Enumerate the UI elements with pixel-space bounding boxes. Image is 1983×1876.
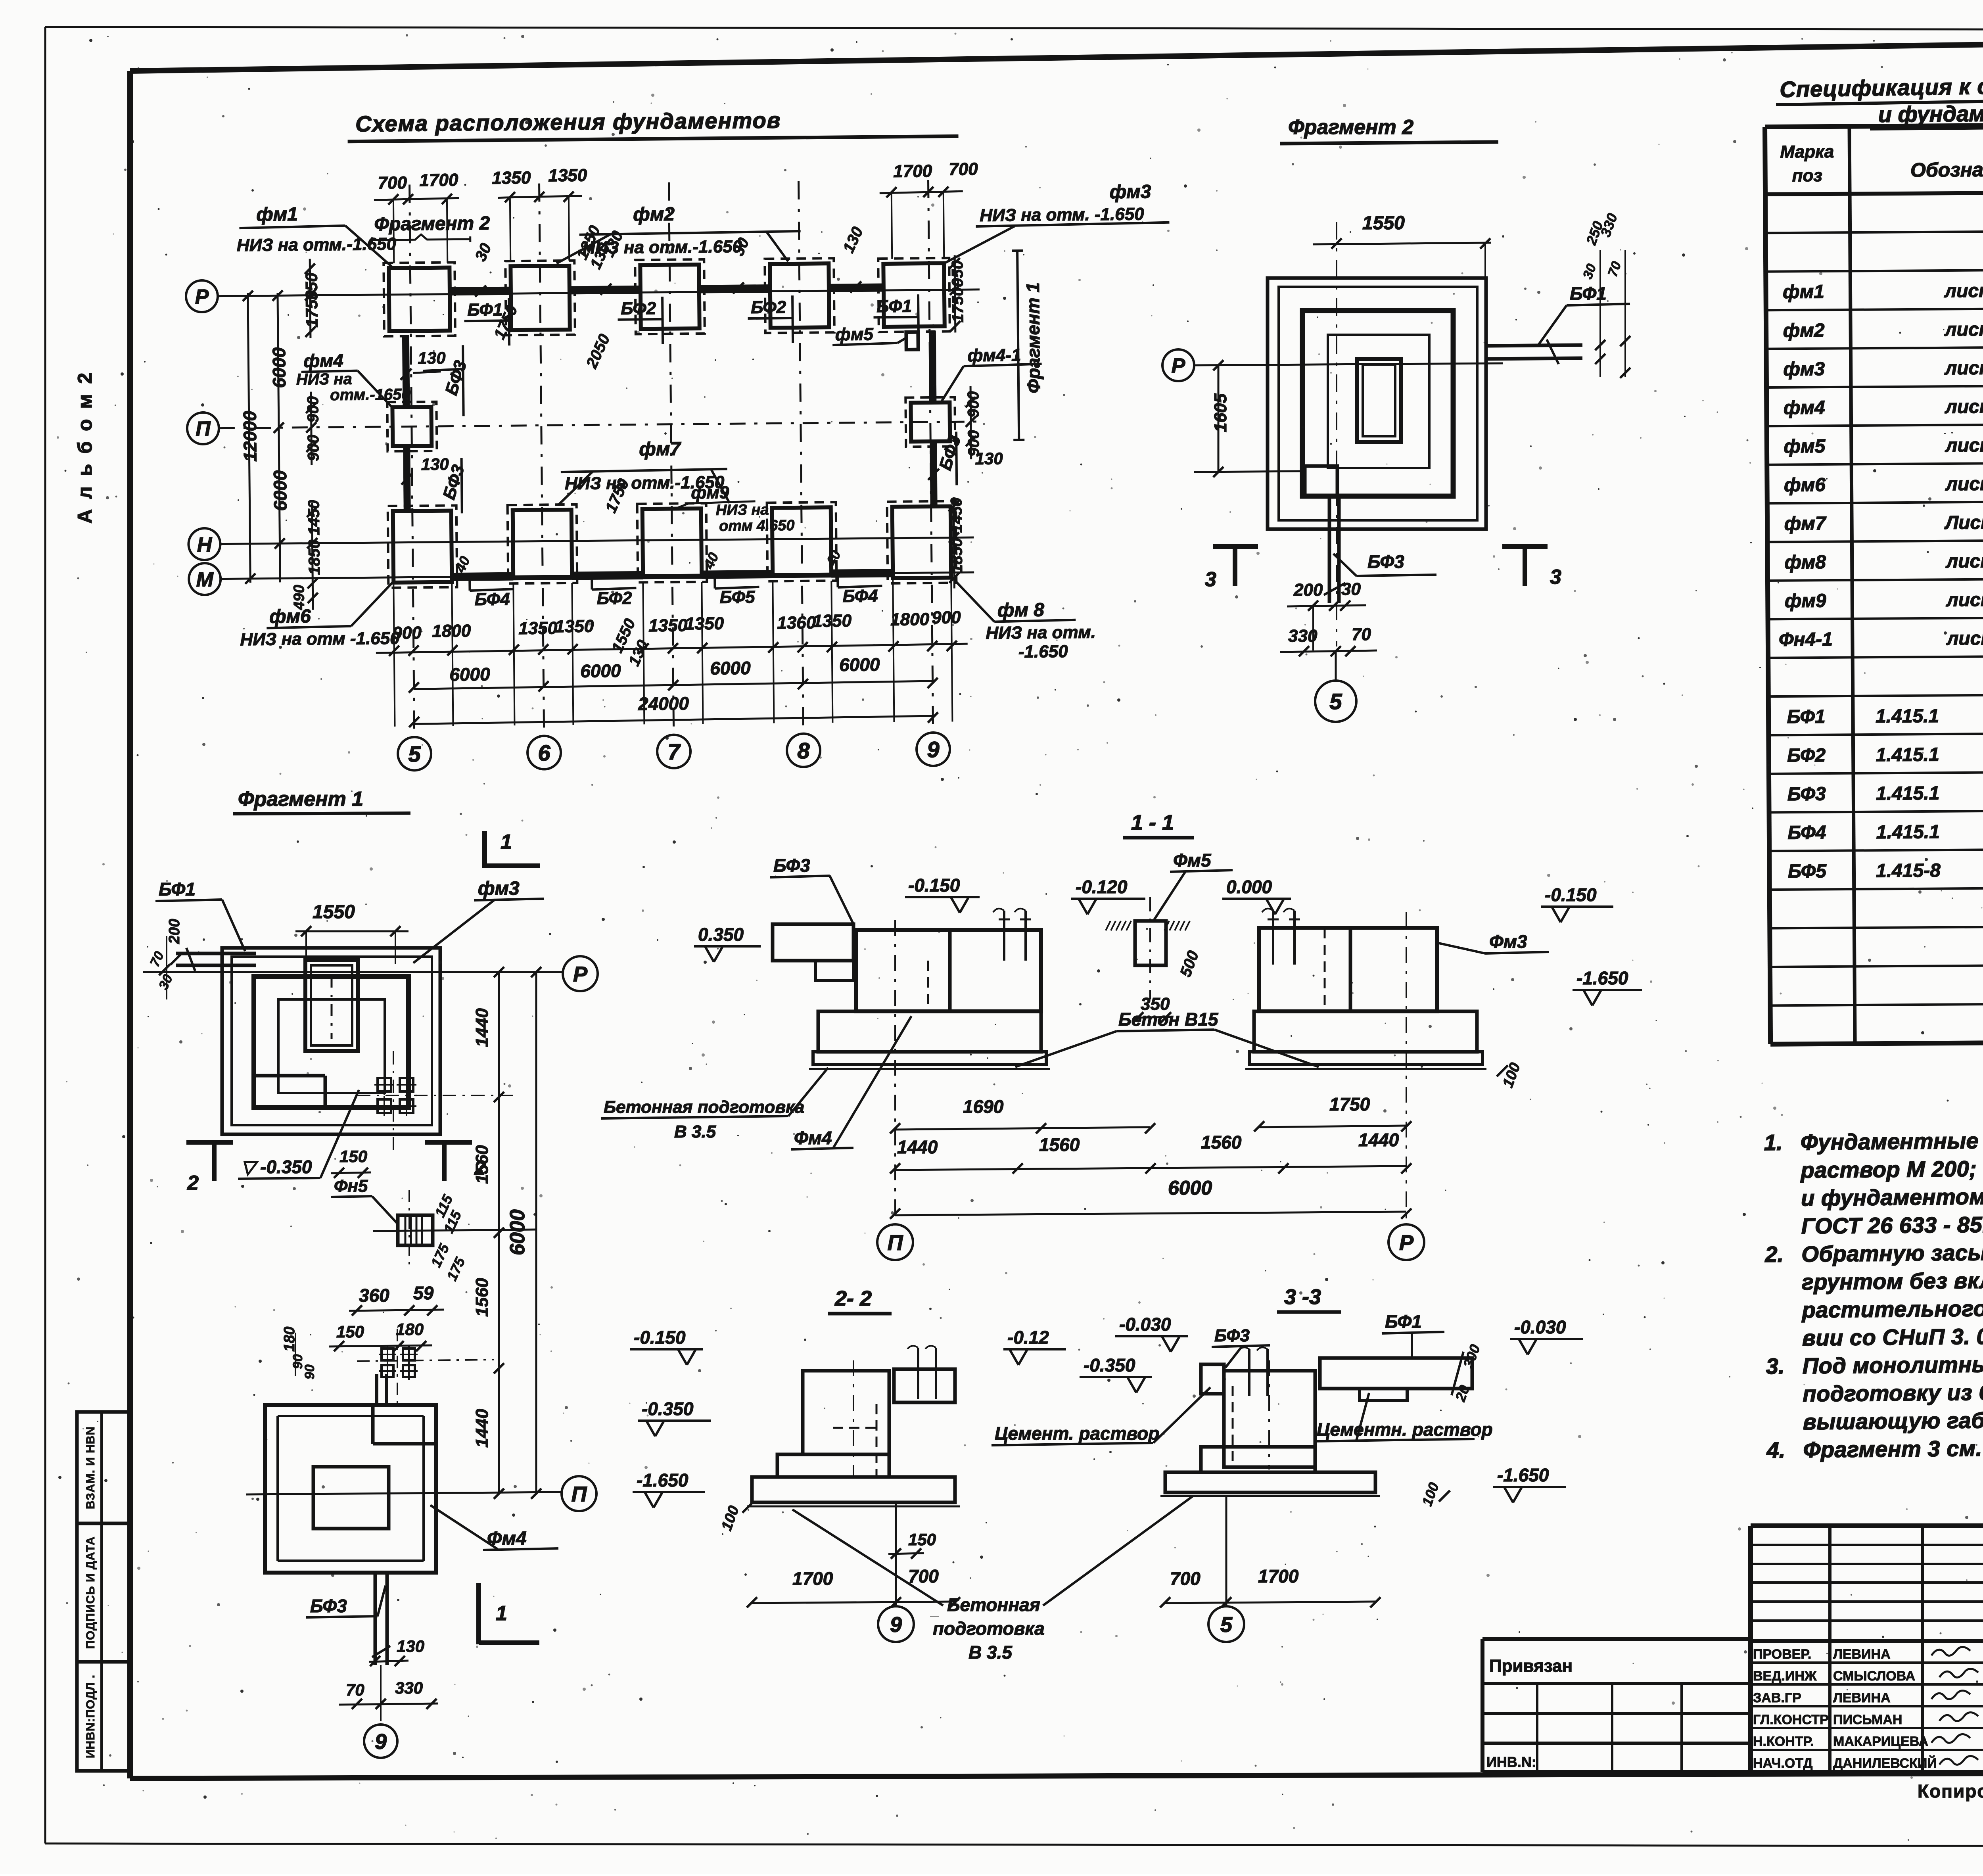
svg-text:700: 700: [1170, 1568, 1201, 1589]
svg-text:1750: 1750: [949, 287, 967, 322]
svg-text:ГЛ.КОНСТР: ГЛ.КОНСТР: [1753, 1712, 1829, 1727]
svg-text:ИНВ.N:: ИНВ.N:: [1486, 1754, 1536, 1770]
svg-text:Р: Р: [1172, 355, 1185, 378]
svg-text:5: 5: [408, 741, 421, 766]
svg-text:НИЗ на отм -1.650: НИЗ на отм -1.650: [240, 629, 400, 650]
svg-text:1.415-8: 1.415-8: [1876, 860, 1941, 882]
svg-text:900: 900: [965, 430, 983, 457]
svg-text:фм4: фм4: [1784, 397, 1825, 418]
svg-text:БФ3: БФ3: [1367, 551, 1404, 572]
svg-text:ЗАВ.ГР: ЗАВ.ГР: [1753, 1690, 1801, 1705]
svg-text:БФ4: БФ4: [1787, 822, 1826, 844]
svg-text:лист 4: лист 4: [1945, 396, 1983, 418]
svg-text:-0.150: -0.150: [634, 1327, 686, 1348]
svg-text:фм1: фм1: [256, 204, 298, 225]
svg-text:70: 70: [346, 1680, 364, 1699]
svg-text:1700: 1700: [893, 161, 932, 181]
svg-text:лист 3: лист 3: [1944, 319, 1983, 340]
svg-text:Цементн. раствор: Цементн. раствор: [1317, 1419, 1493, 1440]
svg-text:БФ3: БФ3: [310, 1596, 347, 1616]
svg-text:1550: 1550: [1362, 213, 1405, 234]
svg-text:Фрагмент 1: Фрагмент 1: [238, 788, 363, 811]
svg-text:вышающую габариты фундамен: вышающую габариты фундамента на 100 мм.: [1803, 1404, 1983, 1434]
svg-text:НАЧ.ОТД: НАЧ.ОТД: [1753, 1756, 1812, 1771]
svg-text:2- 2: 2- 2: [834, 1287, 872, 1310]
svg-text:грунтом без включения стро: грунтом без включения строительного мусо…: [1802, 1264, 1983, 1295]
svg-text:Р: Р: [573, 962, 588, 986]
svg-text:1360: 1360: [777, 613, 816, 633]
svg-text:БФ2: БФ2: [751, 297, 786, 317]
svg-text:фм1: фм1: [1783, 281, 1824, 303]
svg-text:фм4: фм4: [303, 350, 343, 371]
svg-text:6000: 6000: [580, 660, 621, 681]
svg-text:950: 950: [949, 260, 967, 287]
svg-text:ПРОВЕР.: ПРОВЕР.: [1753, 1647, 1811, 1662]
svg-text:0.350: 0.350: [698, 924, 744, 945]
svg-text:6000: 6000: [449, 664, 490, 685]
svg-text:3.: 3.: [1766, 1354, 1784, 1379]
svg-text:2.: 2.: [1764, 1242, 1784, 1267]
svg-text:8: 8: [797, 738, 810, 763]
svg-text:БФ2: БФ2: [1787, 745, 1826, 766]
svg-text:-0.150: -0.150: [1545, 884, 1597, 905]
svg-text:Цемент. раствор: Цемент. раствор: [995, 1423, 1159, 1444]
svg-text:НИЗ на отм.-1.650: НИЗ на отм.-1.650: [237, 234, 397, 255]
svg-text:6000: 6000: [268, 347, 290, 388]
svg-text:фм 8: фм 8: [997, 599, 1045, 621]
svg-text:1750: 1750: [1329, 1094, 1370, 1114]
svg-text:-0.350: -0.350: [1084, 1355, 1135, 1375]
svg-text:1560: 1560: [472, 1145, 492, 1184]
svg-text:12000: 12000: [240, 410, 261, 462]
svg-text:1440: 1440: [472, 1008, 492, 1047]
svg-text:отм.-1650: отм.-1650: [330, 386, 410, 404]
svg-text:5: 5: [1220, 1613, 1233, 1636]
svg-text:3: 3: [1550, 566, 1561, 589]
svg-text:3: 3: [1205, 568, 1216, 591]
svg-text:БФ3: БФ3: [773, 855, 810, 876]
svg-text:БФ1: БФ1: [1385, 1311, 1422, 1332]
svg-text:-1.650: -1.650: [1497, 1465, 1549, 1485]
svg-text:1800: 1800: [890, 610, 930, 629]
svg-text:900: 900: [304, 396, 322, 423]
svg-text:-1.650: -1.650: [1576, 968, 1628, 988]
svg-text:Привязан: Привязан: [1489, 1656, 1573, 1676]
svg-text:СМЫСЛОВА: СМЫСЛОВА: [1833, 1669, 1915, 1684]
svg-text:0.000: 0.000: [1226, 877, 1272, 897]
svg-text:фм5: фм5: [835, 324, 874, 344]
svg-text:Схема расположения фундамент: Схема расположения фундаментов: [355, 107, 781, 136]
svg-text:БФ1: БФ1: [1787, 706, 1825, 728]
svg-text:200: 200: [1293, 580, 1323, 600]
svg-text:1550: 1550: [313, 902, 355, 923]
svg-text:БФ1: БФ1: [876, 296, 912, 316]
svg-text:Бетон В15: Бетон В15: [1118, 1009, 1219, 1030]
svg-text:Фм4: Фм4: [794, 1128, 832, 1148]
svg-text:59: 59: [413, 1283, 434, 1303]
svg-text:6: 6: [538, 740, 551, 765]
svg-text:ИНВN:ПОДЛ .: ИНВN:ПОДЛ .: [84, 1675, 97, 1758]
svg-text:1.: 1.: [1764, 1130, 1783, 1155]
svg-text:-1.650: -1.650: [1018, 642, 1068, 662]
svg-text:МАКАРИЦЕВА: МАКАРИЦЕВА: [1833, 1734, 1928, 1749]
svg-text:▽ -0.350: ▽ -0.350: [241, 1157, 312, 1177]
svg-text:900: 900: [932, 608, 961, 627]
svg-text:ДАНИЛЕВСКИЙ: ДАНИЛЕВСКИЙ: [1833, 1755, 1937, 1771]
svg-text:1.415.1: 1.415.1: [1876, 821, 1940, 843]
svg-text:700: 700: [949, 159, 978, 179]
svg-text:1440: 1440: [1358, 1130, 1399, 1150]
svg-text:2: 2: [187, 1172, 199, 1195]
svg-text:4.: 4.: [1766, 1437, 1785, 1462]
svg-text:БФ5: БФ5: [1788, 861, 1827, 882]
svg-text:фм7: фм7: [1784, 513, 1827, 535]
svg-text:150: 150: [336, 1322, 364, 1341]
svg-text:лист 6: лист 6: [1946, 589, 1983, 611]
svg-text:130: 130: [418, 349, 445, 368]
svg-text:360: 360: [359, 1285, 389, 1306]
svg-text:и фундаментных балок: и фундаментных балок: [1878, 100, 1983, 127]
svg-text:6000: 6000: [839, 654, 880, 675]
svg-text:и фундаментом заделать бето: и фундаментом заделать бетоном класса В1…: [1801, 1181, 1983, 1210]
svg-text:1560: 1560: [1201, 1132, 1242, 1153]
svg-text:фм9: фм9: [691, 483, 729, 503]
svg-text:-0.12: -0.12: [1007, 1327, 1049, 1348]
svg-text:-0.120: -0.120: [1076, 877, 1128, 897]
svg-text:А л ь б о м 2: А л ь б о м 2: [74, 370, 96, 524]
svg-text:Марка: Марка: [1780, 142, 1834, 162]
svg-text:лист 4: лист 4: [1946, 628, 1983, 649]
svg-text:лист 3: лист 3: [1944, 357, 1983, 379]
svg-text:лист 4: лист 4: [1945, 435, 1983, 456]
svg-text:1450: 1450: [305, 500, 323, 535]
svg-text:24000: 24000: [638, 693, 689, 714]
svg-text:330: 330: [1288, 626, 1318, 646]
svg-text:3 -3: 3 -3: [1284, 1285, 1321, 1309]
svg-text:БФ4: БФ4: [474, 589, 510, 609]
svg-text:НИЗ на: НИЗ на: [716, 502, 769, 519]
svg-text:900: 900: [392, 623, 422, 643]
svg-text:900: 900: [965, 391, 982, 418]
svg-text:1.415.1: 1.415.1: [1876, 706, 1939, 727]
svg-text:Фрагмент 1: Фрагмент 1: [1022, 282, 1044, 393]
svg-text:Фрагмент 3 см. на листе: Фрагмент 3 см. на листе КЖ 6.: [1803, 1434, 1983, 1462]
svg-text:М: М: [196, 568, 214, 591]
svg-text:Бетонная подготовка: Бетонная подготовка: [604, 1097, 804, 1117]
svg-text:1750: 1750: [302, 290, 321, 328]
svg-text:ГОСТ 26 633 - 85.: ГОСТ 26 633 - 85.: [1801, 1212, 1983, 1239]
svg-text:1: 1: [501, 831, 512, 854]
svg-text:фм3: фм3: [478, 878, 520, 899]
svg-text:-0.350: -0.350: [642, 1398, 694, 1419]
svg-text:ВЗАМ. И НВN: ВЗАМ. И НВN: [84, 1426, 97, 1509]
svg-text:200: 200: [166, 919, 183, 944]
svg-text:Под монолитными фундаментам: Под монолитными фундаментами выполнить: [1802, 1348, 1983, 1378]
svg-text:-1.650: -1.650: [637, 1470, 688, 1490]
svg-text:1350: 1350: [648, 616, 688, 635]
svg-text:9: 9: [890, 1613, 902, 1636]
svg-text:фм8: фм8: [1784, 552, 1826, 573]
svg-text:700: 700: [378, 173, 407, 193]
svg-text:1350: 1350: [548, 166, 587, 186]
svg-text:-0.030: -0.030: [1514, 1317, 1566, 1337]
svg-text:-0.030: -0.030: [1119, 1314, 1171, 1335]
svg-text:1560: 1560: [1039, 1134, 1080, 1155]
svg-text:6000: 6000: [710, 658, 751, 679]
svg-text:вии со СНиП 3. 02. 01 - 87: вии со СНиП 3. 02. 01 - 87.: [1802, 1323, 1983, 1350]
svg-text:Н.КОНТР.: Н.КОНТР.: [1753, 1734, 1814, 1749]
svg-text:1700: 1700: [1258, 1566, 1299, 1586]
svg-text:лист 5: лист 5: [1945, 551, 1983, 572]
svg-text:Н: Н: [197, 533, 213, 556]
svg-text:1850: 1850: [305, 539, 323, 575]
svg-text:150: 150: [908, 1530, 936, 1549]
svg-text:Фм3: Фм3: [1489, 931, 1527, 952]
svg-text:70: 70: [1352, 625, 1371, 644]
svg-text:Фн4-1: Фн4-1: [1779, 629, 1833, 650]
svg-text:1605: 1605: [1211, 393, 1230, 432]
svg-text:1350: 1350: [685, 614, 724, 634]
svg-text:90: 90: [302, 1364, 317, 1379]
svg-text:Фм5: Фм5: [1173, 850, 1212, 871]
svg-text:1350: 1350: [555, 616, 594, 636]
svg-text:Фрагмент 2: Фрагмент 2: [1288, 116, 1413, 139]
svg-text:БФ2: БФ2: [596, 589, 632, 608]
svg-text:1.415.1: 1.415.1: [1876, 783, 1939, 804]
svg-text:БФ1: БФ1: [159, 879, 196, 900]
svg-text:Копировал: Коршунова: Копировал: Коршунова: [1918, 1781, 1983, 1801]
svg-text:лист 3: лист 3: [1944, 280, 1983, 301]
svg-text:130: 130: [421, 455, 449, 474]
svg-text:6000: 6000: [506, 1209, 529, 1255]
svg-text:1450: 1450: [948, 497, 966, 533]
svg-text:150: 150: [339, 1147, 367, 1166]
svg-text:6000: 6000: [270, 470, 291, 511]
svg-text:Бетонная: Бетонная: [947, 1594, 1040, 1615]
svg-text:фм6: фм6: [269, 606, 311, 627]
svg-text:7: 7: [667, 739, 681, 764]
svg-text:ЛЕВИНА: ЛЕВИНА: [1833, 1690, 1891, 1705]
svg-text:фм4-1: фм4-1: [967, 345, 1021, 365]
svg-text:700: 700: [908, 1566, 939, 1586]
svg-text:БФ5: БФ5: [719, 587, 755, 607]
svg-text:1 - 1: 1 - 1: [1131, 811, 1174, 834]
svg-text:Фундаментные балки укладыват: Фундаментные балки укладывать на цементн…: [1801, 1125, 1983, 1155]
svg-text:Фрагмент 2: Фрагмент 2: [374, 213, 490, 235]
svg-text:130: 130: [397, 1637, 424, 1655]
svg-text:1440: 1440: [897, 1137, 938, 1157]
svg-text:1350: 1350: [518, 618, 558, 638]
svg-text:БФ2: БФ2: [621, 299, 656, 318]
svg-text:БФ4: БФ4: [842, 586, 878, 606]
svg-text:1560: 1560: [472, 1278, 492, 1317]
svg-text:Р: Р: [195, 286, 209, 309]
svg-text:фм3: фм3: [1783, 359, 1825, 380]
svg-text:В 3.5: В 3.5: [674, 1122, 716, 1141]
svg-text:Фн5: Фн5: [334, 1176, 368, 1196]
svg-text:1: 1: [496, 1602, 507, 1625]
svg-text:БФ1: БФ1: [467, 300, 502, 320]
svg-text:1700: 1700: [792, 1568, 833, 1589]
svg-text:НИЗ на отм.: НИЗ на отм.: [986, 622, 1096, 643]
svg-text:фм5: фм5: [1784, 436, 1826, 457]
svg-text:180: 180: [396, 1320, 424, 1339]
svg-text:9: 9: [375, 1730, 387, 1753]
svg-text:330: 330: [395, 1678, 423, 1697]
svg-text:ЛЕВИНА: ЛЕВИНА: [1833, 1647, 1891, 1662]
svg-text:П: П: [888, 1231, 903, 1255]
svg-text:лист 5: лист 5: [1945, 473, 1983, 495]
svg-text:1700: 1700: [419, 170, 458, 190]
svg-text:ПОДПИСЬ И ДАТА: ПОДПИСЬ И ДАТА: [84, 1536, 97, 1649]
svg-text:поз: поз: [1792, 166, 1822, 185]
svg-text:фм9: фм9: [1785, 590, 1826, 612]
svg-text:П: П: [196, 418, 211, 441]
svg-text:Лист 5: Лист 5: [1944, 512, 1983, 533]
svg-text:НИЗ на отм. -1.650: НИЗ на отм. -1.650: [980, 204, 1144, 225]
svg-text:1440: 1440: [472, 1409, 492, 1448]
svg-text:фм7: фм7: [639, 438, 681, 460]
svg-text:фм2: фм2: [1783, 320, 1825, 341]
svg-text:1350: 1350: [492, 168, 531, 188]
svg-text:БФ3: БФ3: [1787, 783, 1826, 805]
svg-text:Р: Р: [1399, 1231, 1414, 1255]
svg-text:ПИСЬМАН: ПИСЬМАН: [1833, 1712, 1902, 1727]
svg-text:1.415.1: 1.415.1: [1876, 744, 1939, 765]
svg-text:Обозначение: Обозначение: [1910, 158, 1983, 181]
svg-text:П: П: [572, 1482, 587, 1506]
svg-text:ВЕД.ИНЖ: ВЕД.ИНЖ: [1753, 1669, 1817, 1684]
svg-text:30: 30: [1341, 579, 1361, 599]
svg-text:900: 900: [305, 435, 322, 461]
svg-text:фм2: фм2: [633, 204, 675, 225]
svg-text:В 3.5: В 3.5: [968, 1642, 1013, 1663]
svg-text:5: 5: [1329, 689, 1342, 714]
svg-text:БФ3: БФ3: [1214, 1326, 1250, 1345]
svg-text:6000: 6000: [1168, 1177, 1212, 1199]
svg-text:подготовка: подготовка: [933, 1618, 1045, 1639]
svg-text:-0.150: -0.150: [908, 875, 960, 896]
svg-text:фм3: фм3: [1110, 181, 1151, 203]
svg-text:фм6: фм6: [1784, 474, 1826, 496]
svg-text:отм 4.650: отм 4.650: [719, 517, 795, 535]
svg-text:1690: 1690: [963, 1096, 1004, 1117]
svg-text:9: 9: [927, 737, 940, 762]
svg-text:1850: 1850: [948, 538, 966, 573]
